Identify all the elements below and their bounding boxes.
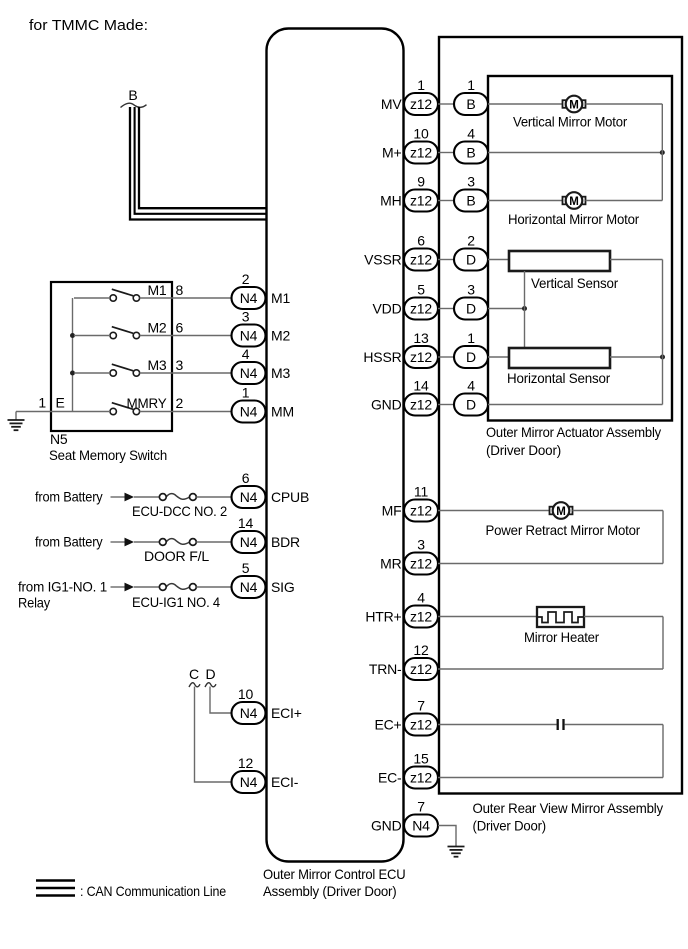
switch MMRY: [110, 403, 140, 415]
svg-text:MV: MV: [381, 96, 402, 112]
svg-text:5: 5: [417, 282, 425, 298]
wire fuse to connector (BDR): [196, 541, 231, 543]
svg-text:12: 12: [413, 642, 429, 658]
seat memory switch N5 box: [51, 282, 172, 431]
svg-text:13: 13: [413, 330, 429, 346]
connector B pin 3: [454, 190, 488, 212]
wire D1 to horizontal sensor: [488, 356, 509, 358]
connector z12 pin 14 (GND): [404, 394, 438, 416]
svg-text:2: 2: [467, 233, 475, 249]
junction sensor common: [522, 306, 527, 311]
svg-text:z12: z12: [410, 349, 432, 365]
connector N4 pin 10 (ECI+): [232, 702, 266, 724]
ground (seat memory switch): [8, 412, 25, 431]
svg-text:Mirror Heater: Mirror Heater: [524, 629, 600, 645]
svg-text:VSSR: VSSR: [364, 252, 401, 268]
svg-text:ECI-: ECI-: [271, 774, 299, 790]
connector z12 pin 4 (HTR+): [404, 606, 438, 628]
svg-text:M+: M+: [382, 145, 401, 161]
svg-text:z12: z12: [410, 193, 432, 209]
CAN bus break symbol: [121, 103, 147, 107]
svg-text:3: 3: [176, 357, 184, 373]
svg-text:7: 7: [417, 698, 425, 714]
fuse DOOR F/L: [159, 539, 196, 546]
wire common to switch M3: [74, 372, 110, 374]
svg-text:M3: M3: [147, 357, 166, 373]
wire HTR+ to heater: [438, 616, 537, 618]
svg-text:ECU-DCC NO. 2: ECU-DCC NO. 2: [132, 503, 227, 519]
wire arrow to fuse (BDR): [134, 541, 159, 543]
svg-text:from Battery: from Battery: [35, 489, 103, 505]
connector N4 pin 7 (GND): [404, 815, 438, 837]
svg-text:z12: z12: [410, 301, 432, 317]
svg-text:z12: z12: [410, 717, 432, 733]
connector N4 pin 14 (BDR): [232, 531, 266, 553]
svg-text:6: 6: [242, 470, 250, 486]
svg-text:z12: z12: [410, 661, 432, 677]
svg-text:N4: N4: [240, 579, 258, 595]
svg-text:Horizontal Mirror Motor: Horizontal Mirror Motor: [508, 211, 640, 227]
svg-text:M: M: [569, 99, 579, 111]
connector z12 pin 11 (MF): [404, 500, 438, 522]
svg-text:ECI+: ECI+: [271, 705, 302, 721]
wire D2 to vertical sensor: [488, 259, 509, 261]
svg-text:SIG: SIG: [271, 579, 295, 595]
resistor horizontal sensor: [509, 348, 610, 368]
svg-text:VDD: VDD: [373, 301, 402, 317]
connector z12 pin 7 (EC+): [404, 714, 438, 736]
svg-text:N4: N4: [240, 404, 258, 420]
svg-text:1: 1: [467, 330, 475, 346]
wire to arrow (BDR): [111, 541, 125, 543]
svg-text:GND: GND: [371, 397, 402, 413]
wire switch M1 to connector: [140, 297, 232, 299]
capacitor EC: [558, 719, 564, 730]
svg-text:C: C: [189, 666, 199, 682]
svg-text:N4: N4: [240, 705, 258, 721]
svg-text:TRN-: TRN-: [369, 661, 402, 677]
wire CAN bus line 3 (inner): [139, 107, 266, 208]
svg-text:Seat Memory Switch: Seat Memory Switch: [49, 447, 167, 463]
svg-text:3: 3: [467, 282, 475, 298]
svg-text:Horizontal Sensor: Horizontal Sensor: [507, 370, 610, 386]
svg-text:N4: N4: [240, 774, 258, 790]
wire switch common vertical: [72, 298, 74, 412]
svg-text:2: 2: [242, 271, 250, 287]
svg-text:(Driver Door): (Driver Door): [473, 818, 547, 834]
connector z12 pin 10 (M+): [404, 142, 438, 164]
wire retract loop vertical: [662, 511, 664, 564]
heater mirror heater element: [537, 607, 584, 627]
box Outer Rear View Mirror Assembly: [439, 37, 682, 794]
motor M vertical mirror: [563, 96, 586, 113]
svg-text:EC+: EC+: [374, 717, 401, 733]
wire vertical mirror motor to bus: [586, 103, 663, 105]
fuse ECU-IG1 NO. 4: [159, 584, 196, 591]
svg-text:N5: N5: [50, 431, 68, 447]
legend CAN communication line symbol: [36, 881, 75, 896]
wire switch MMRY to connector: [140, 411, 232, 413]
wire heater loop vertical: [662, 617, 664, 670]
svg-text:1: 1: [417, 77, 425, 93]
wire D3 sensor common: [488, 308, 525, 310]
junction switch common / M3: [70, 371, 75, 376]
svg-text:MH: MH: [380, 193, 401, 209]
connector z12 pin 5 (VDD): [404, 298, 438, 320]
arrow power feed (CPUB): [125, 493, 135, 502]
svg-text:z12: z12: [410, 770, 432, 786]
arrow power feed (BDR): [125, 538, 135, 547]
svg-text:(Driver Door): (Driver Door): [486, 442, 561, 458]
svg-text:3: 3: [467, 174, 475, 190]
wire C to ECI-: [195, 687, 232, 783]
svg-text:MMRY: MMRY: [127, 395, 168, 411]
svg-text:N4: N4: [240, 328, 258, 344]
svg-text:1: 1: [467, 77, 475, 93]
connector z12 pin 12 (TRN-): [404, 658, 438, 680]
svg-text:EC-: EC-: [378, 770, 402, 786]
wire CAN bus line 2 (middle): [135, 107, 266, 214]
break symbol C: [189, 683, 200, 687]
svg-text:MR: MR: [380, 556, 401, 572]
connector N4 pin 5 (SIG): [232, 576, 266, 598]
wire D4 sensor ground: [488, 404, 663, 406]
connector B pin 4: [454, 142, 488, 164]
break symbol D: [205, 683, 216, 687]
svg-text:2: 2: [176, 395, 184, 411]
arrow power feed (SIG): [125, 583, 135, 592]
svg-text:D: D: [466, 301, 476, 317]
connector D pin 4: [454, 394, 488, 416]
svg-text:z12: z12: [410, 609, 432, 625]
svg-text:4: 4: [242, 346, 250, 362]
svg-text:4: 4: [467, 126, 475, 142]
wire arrow to fuse (SIG): [134, 586, 159, 588]
switch M1: [110, 289, 140, 301]
switch M3: [110, 364, 140, 376]
svg-text:MM: MM: [271, 404, 294, 420]
svg-text:D: D: [466, 349, 476, 365]
switch M2: [110, 327, 140, 339]
wire common to switch M2: [74, 335, 110, 337]
wire MR return: [438, 563, 663, 565]
svg-text:M2: M2: [271, 328, 290, 344]
wire MF to retract motor: [438, 510, 550, 512]
svg-text:HSSR: HSSR: [363, 349, 401, 365]
wire vertical sensor output: [610, 259, 663, 261]
svg-text:Relay: Relay: [18, 595, 50, 611]
ground (ECU GND): [448, 838, 465, 857]
wire heater to loop: [584, 616, 663, 618]
wire switch M3 to connector: [140, 372, 232, 374]
junction switch common / M2: [70, 333, 75, 338]
svg-text:Vertical Mirror Motor: Vertical Mirror Motor: [513, 114, 627, 130]
box Outer Mirror Actuator Assembly: [488, 76, 672, 421]
svg-text:E: E: [56, 395, 65, 411]
svg-text:z12: z12: [410, 503, 432, 519]
svg-text:N4: N4: [240, 534, 258, 550]
svg-text:4: 4: [467, 378, 475, 394]
svg-text:3: 3: [417, 537, 425, 553]
svg-text:B: B: [466, 145, 475, 161]
connector z12 pin 1 (MV): [404, 93, 438, 115]
connector D pin 1: [454, 346, 488, 368]
junction sensor output bus: [660, 355, 665, 360]
svg-text:z12: z12: [410, 556, 432, 572]
svg-text:Outer Mirror Actuator Assembly: Outer Mirror Actuator Assembly: [486, 424, 661, 440]
svg-text:1: 1: [38, 395, 46, 411]
connector z12 pin 9 (MH): [404, 190, 438, 212]
svg-text:D: D: [466, 252, 476, 268]
svg-text:M: M: [556, 506, 566, 518]
svg-text:Power Retract Mirror Motor: Power Retract Mirror Motor: [486, 522, 641, 538]
svg-text:3: 3: [242, 309, 250, 325]
svg-text:4: 4: [417, 590, 425, 606]
motor M horizontal mirror: [563, 192, 586, 209]
svg-text:M1: M1: [147, 282, 166, 298]
svg-text:DOOR F/L: DOOR F/L: [144, 548, 209, 564]
wire CAN bus line 1 (outer): [130, 107, 266, 220]
svg-text:GND: GND: [371, 818, 402, 834]
connector z12 pin 6 (VSSR): [404, 249, 438, 271]
wire GND to ground: [438, 826, 456, 839]
connector z12 pin 15 (EC-): [404, 767, 438, 789]
svg-text:M3: M3: [271, 365, 290, 381]
svg-text:: CAN Communication Line: : CAN Communication Line: [80, 883, 226, 899]
svg-text:HTR+: HTR+: [365, 609, 401, 625]
svg-text:5: 5: [242, 560, 250, 576]
svg-text:for TMMC Made:: for TMMC Made:: [29, 17, 148, 34]
svg-text:14: 14: [413, 378, 429, 394]
wire TRN- return: [438, 668, 663, 670]
svg-text:6: 6: [417, 233, 425, 249]
resistor vertical sensor: [509, 251, 610, 271]
svg-text:MF: MF: [382, 503, 402, 519]
svg-text:11: 11: [414, 484, 429, 500]
svg-text:CPUB: CPUB: [271, 489, 309, 505]
svg-text:z12: z12: [410, 252, 432, 268]
wire arrow to fuse (CPUB): [134, 496, 159, 498]
svg-text:12: 12: [238, 755, 254, 771]
svg-text:Assembly (Driver Door): Assembly (Driver Door): [263, 883, 397, 899]
connector z12 pin 13 (HSSR): [404, 346, 438, 368]
wire common to switch M1: [74, 297, 110, 299]
wire sensor common vertical: [524, 271, 526, 348]
wire z12 to D connector (row 3): [438, 308, 454, 310]
wire to arrow (SIG): [111, 586, 125, 588]
motor M power retract: [550, 502, 573, 519]
ECU box Outer Mirror Control ECU Assembly: [267, 29, 404, 862]
wire capacitor loop vertical: [662, 725, 664, 778]
svg-text:B: B: [466, 193, 475, 209]
svg-text:Outer Rear View Mirror Assembl: Outer Rear View Mirror Assembly: [473, 800, 664, 816]
svg-text:14: 14: [238, 515, 254, 531]
svg-text:M: M: [569, 196, 579, 208]
wire motor bus vertical: [661, 104, 663, 201]
wire B3 to horizontal mirror motor: [488, 200, 563, 202]
connector N4 pin 2 (M1): [232, 287, 266, 309]
svg-text:M2: M2: [147, 320, 166, 336]
connector N4 pin 1 (MM): [232, 401, 266, 423]
svg-text:8: 8: [176, 282, 184, 298]
svg-text:ECU-IG1 NO. 4: ECU-IG1 NO. 4: [132, 594, 220, 610]
connector z12 pin 3 (MR): [404, 553, 438, 575]
svg-text:10: 10: [413, 126, 429, 142]
fuse ECU-DCC NO. 2: [159, 494, 196, 501]
connector N4 pin 4 (M3): [232, 362, 266, 384]
svg-text:N4: N4: [240, 290, 258, 306]
svg-text:z12: z12: [410, 397, 432, 413]
svg-text:BDR: BDR: [271, 534, 300, 550]
svg-text:9: 9: [417, 174, 425, 190]
svg-text:10: 10: [238, 686, 254, 702]
svg-text:1: 1: [242, 385, 250, 401]
wire B4 motor common: [488, 152, 662, 154]
connector D pin 3: [454, 298, 488, 320]
svg-text:Vertical Sensor: Vertical Sensor: [531, 275, 619, 291]
svg-text:Outer Mirror Control ECU: Outer Mirror Control ECU: [263, 866, 406, 882]
svg-text:z12: z12: [410, 96, 432, 112]
wire EC+ to capacitor: [438, 724, 557, 726]
connector B pin 1: [454, 93, 488, 115]
wire EC- return: [438, 777, 663, 779]
wire z12 to B connector (row 3): [438, 200, 454, 202]
wire fuse to connector (SIG): [196, 586, 231, 588]
wire z12 to D connector (row 1): [438, 356, 454, 358]
svg-text:N4: N4: [412, 818, 430, 834]
wire to arrow (CPUB): [111, 496, 125, 498]
wire horizontal sensor output: [610, 356, 663, 358]
svg-text:N4: N4: [240, 489, 258, 505]
svg-text:from Battery: from Battery: [35, 534, 103, 550]
connector N4 pin 12 (ECI-): [232, 771, 266, 793]
connector N4 pin 3 (M2): [232, 325, 266, 347]
svg-text:B: B: [466, 96, 475, 112]
connector N4 pin 6 (CPUB): [232, 486, 266, 508]
svg-text:15: 15: [413, 751, 429, 767]
svg-text:D: D: [206, 666, 216, 682]
junction motor common bus: [660, 150, 665, 155]
wire retract motor to loop: [573, 510, 664, 512]
wire z12 to B connector (row 4): [438, 152, 454, 154]
svg-text:N4: N4: [240, 365, 258, 381]
svg-text:D: D: [466, 397, 476, 413]
wire z12 to D connector (row 2): [438, 259, 454, 261]
wire sensor bus vertical: [662, 260, 664, 405]
wire D to ECI+: [210, 687, 232, 714]
wire fuse to connector (CPUB): [196, 496, 231, 498]
wire capacitor to loop: [565, 724, 663, 726]
svg-text:z12: z12: [410, 145, 432, 161]
connector D pin 2: [454, 249, 488, 271]
wire z12 to B connector (row 1): [438, 103, 454, 105]
svg-text:7: 7: [417, 799, 425, 815]
wire switch M2 to connector: [140, 335, 232, 337]
svg-text:M1: M1: [271, 290, 290, 306]
wire ground E to switch MMRY: [16, 411, 110, 413]
wire z12 to D connector (row 4): [438, 404, 454, 406]
wire B1 to vertical mirror motor: [488, 103, 563, 105]
svg-text:B: B: [128, 87, 137, 103]
svg-text:6: 6: [176, 320, 184, 336]
svg-text:from IG1-NO. 1: from IG1-NO. 1: [18, 579, 107, 595]
wire horizontal mirror motor to bus: [586, 200, 663, 202]
